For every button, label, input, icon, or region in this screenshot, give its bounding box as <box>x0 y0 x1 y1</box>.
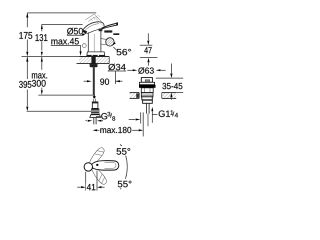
dim max.300 vertical line <box>41 57 43 70</box>
waste locknut <box>142 97 153 100</box>
faucet base plinth <box>87 52 105 56</box>
waste plug cap <box>141 78 152 83</box>
top view lever <box>92 161 119 170</box>
faucet body edges <box>87 32 89 52</box>
dim 131 vertical line <box>41 24 43 31</box>
label 55 deg top <box>116 146 132 156</box>
hose tip <box>93 95 96 99</box>
hose fitting neck <box>92 99 94 102</box>
lever dot <box>96 164 98 166</box>
bar A <box>140 112 142 123</box>
dim 90 arrows <box>84 80 87 82</box>
small dark dash right of head <box>113 33 119 35</box>
dim 41 text <box>86 183 96 190</box>
extension line 395 bottom <box>27 110 91 112</box>
top view phantom lever down <box>91 166 109 186</box>
fitting body <box>92 102 98 109</box>
waste threaded body <box>141 93 153 97</box>
extension line max300 bottom <box>38 94 93 96</box>
deck right edge <box>108 57 110 64</box>
spout underside curve <box>87 28 102 33</box>
extension line 131 top <box>42 23 83 25</box>
Ø34 underline and drop <box>108 70 127 72</box>
cartridge head dark band <box>104 30 112 32</box>
pop-up knob ball <box>101 38 106 41</box>
dim 35-45 <box>170 64 172 74</box>
dim 175 text <box>19 32 32 39</box>
deck hatch <box>79 57 91 63</box>
ceramic right section <box>162 93 176 98</box>
spout inner double curve <box>84 24 99 32</box>
lever raised phantom <box>85 14 104 25</box>
dim 131 text <box>35 34 47 41</box>
G1 leader vertical <box>151 109 153 123</box>
fitting threaded section G3/8 <box>91 108 99 114</box>
deck top line <box>79 56 109 58</box>
label Ø50 <box>67 28 83 35</box>
waste flange <box>139 82 154 84</box>
dim 395 vertical line <box>26 57 28 79</box>
threaded shank through deck <box>91 57 95 64</box>
dim 47 <box>147 33 149 40</box>
lever pivot dark patch <box>99 29 103 32</box>
label 56 deg <box>113 47 116 50</box>
dim max.180 <box>93 129 98 131</box>
lever handle (rest position) <box>102 23 118 29</box>
extension line 175 top <box>27 12 96 14</box>
arrow pair at hose tails <box>85 120 87 122</box>
hose tails <box>93 117 95 124</box>
label G3/8 <box>96 116 100 118</box>
label 55 deg bottom <box>117 179 133 188</box>
faucet spout upper curve <box>83 22 105 30</box>
faucet spout body fill <box>82 22 104 52</box>
Ø34 label <box>108 64 125 71</box>
swing arc <box>120 144 127 189</box>
dim 41 extension lines <box>85 172 87 191</box>
dim max.300 text <box>32 73 47 78</box>
dim 90 text <box>100 79 109 85</box>
supply hose <box>93 67 95 95</box>
waste seal (black) <box>139 85 156 88</box>
label Ø63 <box>127 69 132 71</box>
pop-up rod <box>145 103 147 113</box>
mounting nut <box>89 63 98 65</box>
ceramic left section <box>130 93 140 98</box>
deck bottom line <box>77 63 110 65</box>
top view body circle <box>84 163 92 171</box>
dim 395 text <box>19 81 31 88</box>
dim 41 arrows <box>77 186 81 188</box>
fitting flare nut <box>90 115 101 118</box>
Ø50 leader <box>67 34 84 36</box>
label max.45 <box>51 38 78 44</box>
bar B (max180 right extension) <box>142 112 144 136</box>
arrow to bar A <box>129 119 136 121</box>
waste upper body <box>141 88 153 93</box>
small circle on body left <box>82 44 86 48</box>
label G1 1/4 <box>159 110 170 117</box>
extension line deck top left <box>22 56 80 58</box>
top view phantom lever up <box>88 146 106 166</box>
spout aerator outlet (dark) <box>82 30 87 34</box>
max.45 leader <box>51 44 81 46</box>
dim 175 vertical line <box>26 13 28 27</box>
